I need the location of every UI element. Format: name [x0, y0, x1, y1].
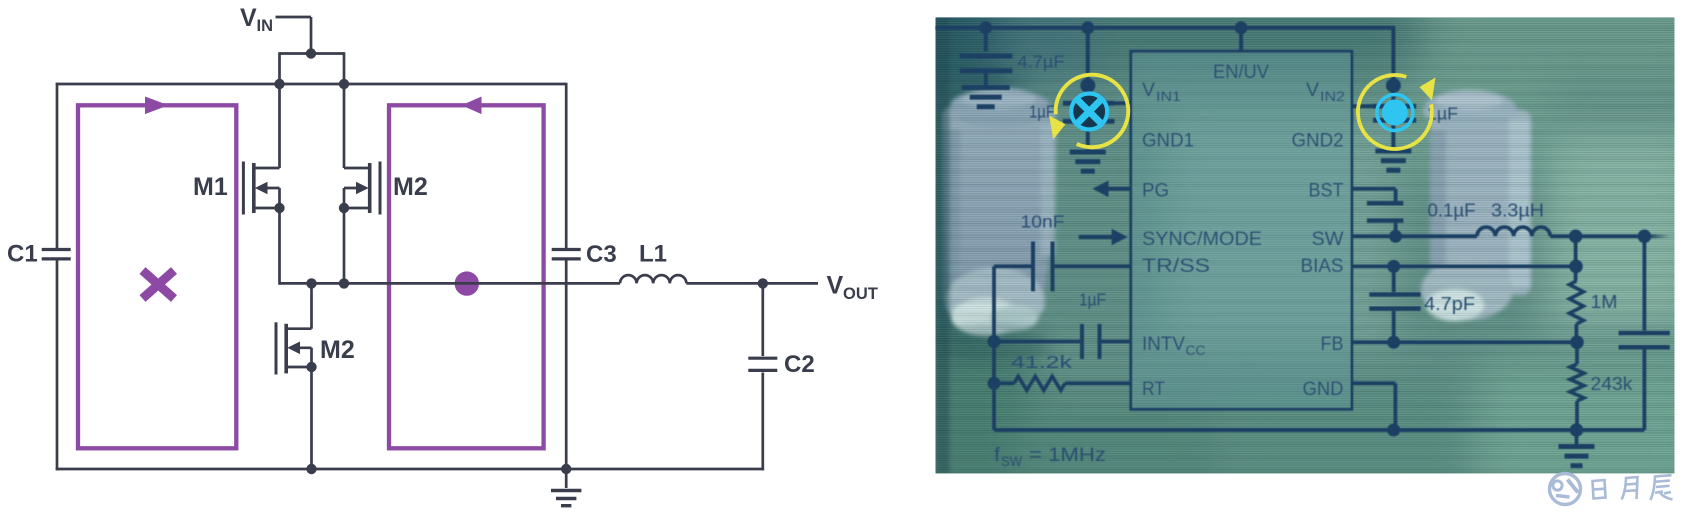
svg-text:C3: C3: [586, 241, 617, 268]
wire FB: [1352, 340, 1577, 344]
capacitor 1uF (VIN2) with ground: [1386, 78, 1401, 93]
transistor M2 (top): [343, 84, 346, 168]
inductor 3.3uH: [1477, 227, 1550, 236]
svg-text:M2: M2: [393, 173, 428, 201]
svg-text:4.7pF: 4.7pF: [1424, 294, 1475, 314]
capacitor C3: [565, 83, 568, 248]
wire SW node: [1352, 234, 1477, 238]
wire after inductor to output: [1550, 234, 1646, 238]
capacitor 0.1uF BST: [1352, 187, 1396, 191]
loop 1 arrow: [145, 97, 169, 115]
ground symbol (output): [1575, 430, 1579, 444]
svg-text:SW: SW: [1001, 454, 1022, 469]
svg-text:INTV: INTV: [1142, 333, 1185, 355]
resistor 1M: [1574, 236, 1578, 281]
wire VIN top rail (right): [936, 26, 1394, 30]
wire top rail: [56, 83, 567, 86]
svg-text:OUT: OUT: [843, 285, 878, 303]
svg-text:EN/UV: EN/UV: [1213, 61, 1269, 83]
SYNC/MODE arrow (in): [1079, 235, 1114, 239]
svg-text:V: V: [827, 272, 844, 300]
svg-text:V: V: [1142, 79, 1155, 101]
svg-text:BST: BST: [1309, 180, 1344, 202]
svg-text:V: V: [1306, 79, 1319, 101]
svg-text:0.1µF: 0.1µF: [1428, 201, 1476, 221]
svg-text:BIAS: BIAS: [1301, 255, 1344, 277]
marker: yellow CW field arrow (right): [1358, 75, 1432, 149]
capacitor C2: [761, 283, 764, 356]
svg-text:M1: M1: [193, 173, 228, 201]
svg-text:GND1: GND1: [1142, 130, 1194, 152]
wire bottom rail: [56, 468, 764, 471]
wire left edge lower: [56, 261, 59, 471]
wire VIN2 to IC: [1352, 104, 1374, 108]
wire VIN to rail left: [278, 52, 281, 84]
photo: right tantalum capacitor blob: [1421, 90, 1531, 321]
svg-text:GND2: GND2: [1292, 130, 1344, 152]
wire fading tail: [1649, 234, 1669, 238]
svg-text:IN: IN: [257, 17, 274, 35]
svg-text:M2: M2: [320, 336, 355, 364]
capacitor 4.7pF: [1392, 266, 1396, 292]
svg-text:SW: SW: [1312, 228, 1345, 250]
svg-text:= 1MHz: = 1MHz: [1029, 445, 1106, 466]
hot loop 1 (purple): [78, 105, 236, 448]
svg-text:243k: 243k: [1591, 374, 1634, 394]
wire left bus vertical: [992, 266, 996, 430]
wire left edge upper: [56, 83, 59, 248]
svg-text:IN2: IN2: [1320, 89, 1345, 104]
svg-text:FB: FB: [1321, 333, 1344, 355]
marker: current out of page (cyan dot): [1377, 95, 1413, 131]
junction on rail at 1uF: [1081, 21, 1094, 34]
wire VIN1 to IC: [1113, 101, 1131, 105]
capacitor 10nF on TR/SS: [1055, 264, 1131, 268]
wire VIN: [276, 16, 312, 19]
transistor M2 (bottom): [310, 283, 313, 328]
svg-text:PG: PG: [1142, 180, 1169, 202]
svg-text:C2: C2: [784, 351, 815, 378]
svg-text:3.3µH: 3.3µH: [1491, 201, 1544, 221]
watermark logo 日月辰: [1550, 474, 1673, 505]
wire GND pin to rail: [1352, 381, 1396, 385]
marker: current into page (cyan X): [1069, 92, 1109, 132]
svg-text:RT: RT: [1142, 378, 1165, 400]
ground symbol: [565, 469, 568, 488]
resistor 41.2k on RT: [994, 381, 1014, 385]
output capacitor right: [1643, 236, 1647, 330]
wire VIN2 drop from rail: [1391, 26, 1395, 104]
wire BIAS: [1352, 264, 1576, 268]
loop 2 dot mark (field out of page): [455, 271, 479, 295]
svg-text:SYNC/MODE: SYNC/MODE: [1142, 228, 1262, 250]
capacitor 4.7uF with ground: [984, 28, 988, 52]
svg-text:C1: C1: [7, 241, 38, 268]
bottom ground rail (right): [994, 428, 1577, 432]
capacitor 1uF on INTVCC: [994, 340, 1081, 344]
wire L1 to VOUT: [686, 282, 818, 285]
svg-text:TR/SS: TR/SS: [1142, 255, 1210, 277]
svg-text:4.7µF: 4.7µF: [1018, 52, 1065, 72]
PCB photo background: [890, 0, 1683, 500]
svg-text:f: f: [994, 445, 1001, 466]
svg-text:1µF: 1µF: [1079, 290, 1106, 310]
PG arrow (out): [1103, 187, 1131, 191]
photo: left tantalum capacitor blob: [942, 88, 1056, 336]
svg-text:GND: GND: [1303, 378, 1344, 400]
wire SW node: [280, 282, 621, 285]
capacitor C1: [42, 248, 71, 251]
svg-text:41.2k: 41.2k: [1011, 352, 1072, 372]
svg-text:CC: CC: [1186, 343, 1206, 358]
wire VIN to rail right: [343, 52, 346, 84]
svg-text:1M: 1M: [1591, 292, 1618, 312]
marker: yellow CCW field arrow (left): [1056, 75, 1129, 148]
junction on rail at EN/UV: [1235, 21, 1248, 34]
svg-text:IN1: IN1: [1156, 89, 1181, 104]
resistor 243k: [1575, 342, 1579, 364]
junction on rail at 4.7uF: [979, 21, 992, 34]
hot loop 2 (purple): [389, 105, 544, 448]
transistor M1: [278, 84, 281, 168]
capacitor 1uF (VIN1) with ground: [1086, 28, 1090, 100]
op-amp U1 IC body LT8614: [1131, 51, 1352, 409]
inductor L1: [620, 275, 686, 283]
loop 2 arrow: [462, 97, 482, 115]
svg-text:V: V: [240, 4, 257, 32]
wire EN/UV to IC: [1239, 28, 1243, 52]
svg-text:L1: L1: [639, 241, 667, 268]
loop 1 X mark (field into page): [143, 271, 175, 299]
svg-text:10nF: 10nF: [1021, 212, 1065, 232]
